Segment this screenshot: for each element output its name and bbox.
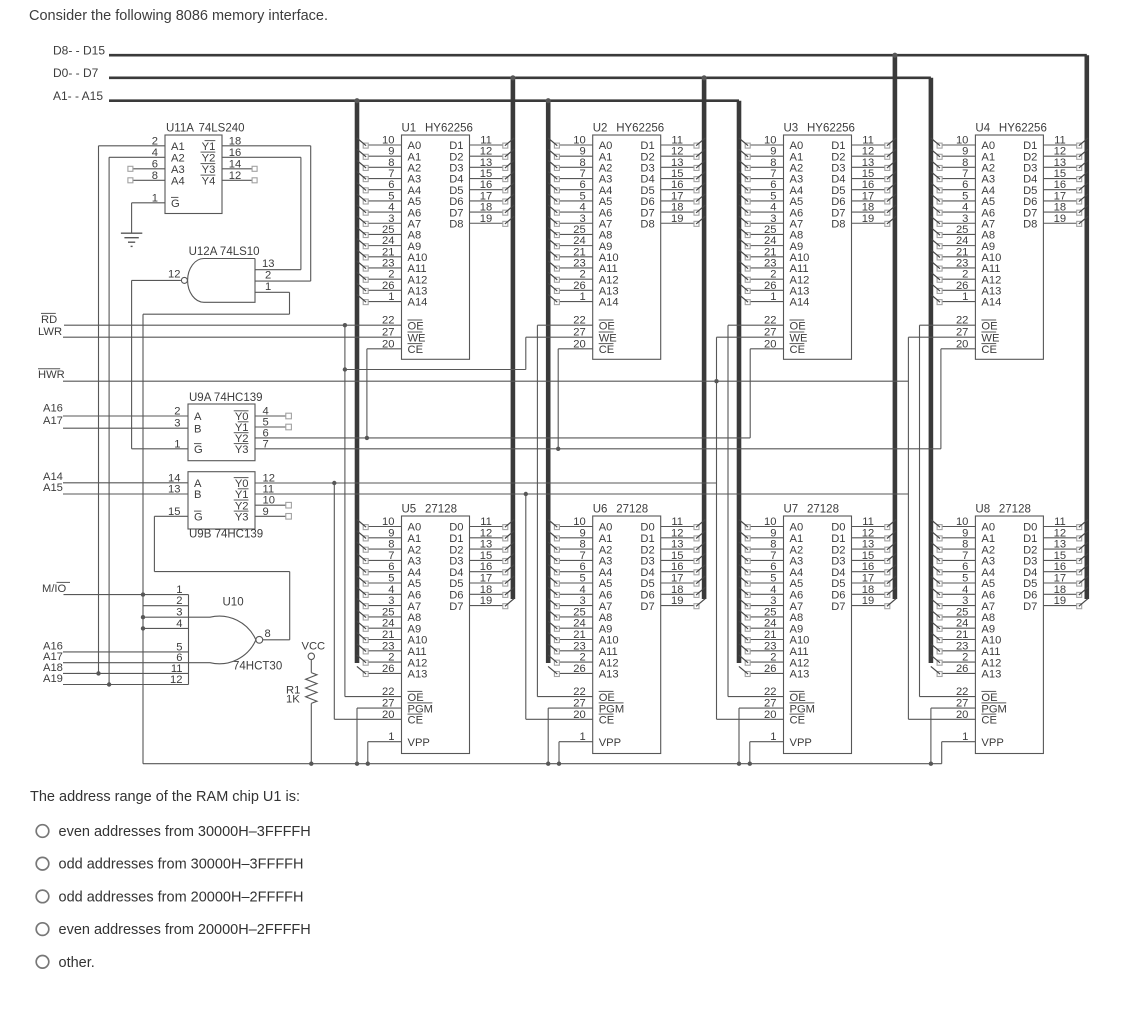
- svg-text:OE: OE: [599, 320, 615, 332]
- svg-text:A12: A12: [790, 657, 810, 669]
- svg-text:D2: D2: [1023, 544, 1037, 556]
- svg-text:D4: D4: [449, 567, 463, 579]
- svg-text:19: 19: [1054, 213, 1066, 225]
- svg-text:D8: D8: [1023, 218, 1037, 230]
- svg-text:17: 17: [1054, 573, 1066, 585]
- svg-text:13: 13: [480, 539, 492, 551]
- svg-text:12: 12: [671, 527, 683, 539]
- svg-text:16: 16: [671, 561, 683, 573]
- svg-text:Y1: Y1: [235, 489, 249, 501]
- svg-text:A1- - A15: A1- - A15: [53, 89, 103, 103]
- svg-text:24: 24: [956, 618, 968, 630]
- svg-text:D0: D0: [831, 522, 845, 534]
- svg-text:G: G: [194, 512, 203, 524]
- svg-text:A2: A2: [599, 544, 613, 556]
- svg-text:74LS240: 74LS240: [199, 123, 245, 135]
- svg-text:A10: A10: [408, 635, 428, 647]
- svg-text:U9B 74HC139: U9B 74HC139: [189, 529, 263, 541]
- svg-text:21: 21: [382, 629, 394, 641]
- svg-text:A12: A12: [599, 657, 619, 669]
- svg-text:10: 10: [956, 516, 968, 528]
- svg-text:D5: D5: [449, 578, 463, 590]
- svg-text:A4: A4: [790, 567, 804, 579]
- svg-text:A1: A1: [599, 533, 613, 545]
- svg-text:A5: A5: [599, 578, 613, 590]
- svg-text:CE: CE: [790, 344, 806, 356]
- svg-text:HY62256: HY62256: [807, 123, 855, 135]
- svg-text:5: 5: [770, 573, 776, 585]
- svg-text:A4: A4: [599, 567, 613, 579]
- svg-text:19: 19: [671, 213, 683, 225]
- svg-text:1K: 1K: [286, 694, 300, 706]
- svg-text:9: 9: [770, 527, 776, 539]
- svg-text:25: 25: [764, 606, 776, 618]
- svg-text:A7: A7: [790, 601, 804, 613]
- svg-text:VPP: VPP: [790, 737, 812, 749]
- svg-text:17: 17: [671, 573, 683, 585]
- svg-text:OE: OE: [790, 692, 806, 704]
- svg-text:OE: OE: [408, 692, 424, 704]
- svg-text:odd addresses from 30000H–3FFF: odd addresses from 30000H–3FFFFH: [59, 857, 304, 873]
- svg-text:8: 8: [388, 539, 394, 551]
- svg-text:7: 7: [263, 438, 269, 450]
- svg-text:A5: A5: [790, 578, 804, 590]
- svg-text:A4: A4: [981, 567, 995, 579]
- svg-text:15: 15: [480, 550, 492, 562]
- svg-text:B: B: [194, 489, 201, 501]
- svg-text:A0: A0: [599, 522, 613, 534]
- svg-text:8: 8: [579, 539, 585, 551]
- svg-text:6: 6: [579, 561, 585, 573]
- svg-text:A9: A9: [408, 623, 422, 635]
- svg-text:A3: A3: [171, 164, 185, 176]
- svg-text:CE: CE: [408, 344, 424, 356]
- svg-text:HY62256: HY62256: [616, 123, 664, 135]
- svg-text:D5: D5: [1023, 578, 1037, 590]
- svg-text:Y1: Y1: [202, 141, 216, 153]
- svg-text:U10: U10: [223, 597, 244, 609]
- svg-text:12: 12: [168, 268, 180, 280]
- svg-text:11: 11: [1054, 516, 1066, 528]
- svg-text:A0: A0: [790, 522, 804, 534]
- svg-text:5: 5: [962, 573, 968, 585]
- svg-text:A6: A6: [599, 590, 613, 602]
- svg-text:A2: A2: [981, 544, 995, 556]
- svg-text:24: 24: [573, 618, 585, 630]
- svg-text:PGM: PGM: [981, 703, 1006, 715]
- svg-text:A1: A1: [408, 533, 422, 545]
- svg-text:Y2: Y2: [202, 153, 216, 165]
- svg-text:6: 6: [962, 561, 968, 573]
- svg-text:D3: D3: [831, 556, 845, 568]
- svg-text:A14: A14: [599, 297, 619, 309]
- svg-text:A6: A6: [981, 590, 995, 602]
- svg-text:2: 2: [579, 652, 585, 664]
- svg-text:24: 24: [382, 618, 394, 630]
- svg-text:1: 1: [962, 291, 968, 303]
- svg-text:D1: D1: [831, 533, 845, 545]
- svg-text:19: 19: [862, 213, 874, 225]
- svg-text:D4: D4: [1023, 567, 1037, 579]
- svg-text:17: 17: [862, 573, 874, 585]
- svg-text:D6: D6: [831, 590, 845, 602]
- svg-text:D6: D6: [449, 590, 463, 602]
- svg-text:12: 12: [1054, 527, 1066, 539]
- svg-text:A0: A0: [981, 522, 995, 534]
- svg-text:RD: RD: [41, 314, 57, 326]
- svg-text:24: 24: [764, 618, 776, 630]
- svg-text:D1: D1: [449, 533, 463, 545]
- svg-text:23: 23: [573, 640, 585, 652]
- svg-text:12: 12: [862, 527, 874, 539]
- svg-text:13: 13: [262, 258, 274, 270]
- svg-text:A3: A3: [790, 556, 804, 568]
- svg-text:D3: D3: [640, 556, 654, 568]
- svg-text:26: 26: [573, 663, 585, 675]
- svg-text:19: 19: [862, 595, 874, 607]
- svg-text:4: 4: [962, 584, 968, 596]
- svg-text:A14: A14: [408, 297, 428, 309]
- svg-text:OE: OE: [981, 320, 997, 332]
- svg-text:A6: A6: [790, 590, 804, 602]
- svg-text:1: 1: [770, 291, 776, 303]
- svg-text:4: 4: [176, 618, 182, 630]
- svg-text:26: 26: [382, 663, 394, 675]
- svg-text:D8: D8: [831, 218, 845, 230]
- svg-text:D0: D0: [1023, 522, 1037, 534]
- svg-text:6: 6: [388, 561, 394, 573]
- svg-text:9: 9: [388, 527, 394, 539]
- svg-text:OE: OE: [599, 692, 615, 704]
- svg-text:D0: D0: [449, 522, 463, 534]
- svg-text:OE: OE: [981, 692, 997, 704]
- svg-text:CE: CE: [981, 715, 997, 727]
- svg-text:D6: D6: [1023, 590, 1037, 602]
- svg-text:10: 10: [764, 516, 776, 528]
- svg-text:PGM: PGM: [408, 703, 433, 715]
- svg-text:U2: U2: [593, 123, 608, 135]
- svg-text:PGM: PGM: [790, 703, 815, 715]
- svg-text:25: 25: [382, 606, 394, 618]
- svg-text:11: 11: [862, 516, 874, 528]
- svg-text:A13: A13: [790, 669, 810, 681]
- svg-text:D7: D7: [449, 601, 463, 613]
- svg-text:D2: D2: [640, 544, 654, 556]
- svg-text:A14: A14: [981, 297, 1001, 309]
- svg-text:16: 16: [480, 561, 492, 573]
- svg-text:A1: A1: [790, 533, 804, 545]
- svg-text:21: 21: [573, 629, 585, 641]
- svg-text:14: 14: [168, 472, 180, 484]
- svg-text:other.: other.: [59, 955, 95, 971]
- svg-text:D1: D1: [640, 533, 654, 545]
- svg-text:U6: U6: [593, 504, 608, 516]
- svg-text:7: 7: [770, 550, 776, 562]
- svg-text:21: 21: [764, 629, 776, 641]
- svg-text:12: 12: [170, 674, 182, 686]
- svg-text:1: 1: [579, 291, 585, 303]
- svg-text:74HCT30: 74HCT30: [233, 661, 282, 673]
- svg-text:A1: A1: [981, 533, 995, 545]
- svg-text:A14: A14: [43, 471, 63, 483]
- svg-text:11: 11: [263, 484, 275, 496]
- svg-text:HY62256: HY62256: [999, 123, 1047, 135]
- svg-text:even addresses from 30000H–3FF: even addresses from 30000H–3FFFFH: [59, 824, 311, 840]
- svg-text:11: 11: [671, 516, 683, 528]
- svg-text:WE: WE: [981, 332, 999, 344]
- svg-text:A0: A0: [408, 522, 422, 534]
- svg-text:A1: A1: [171, 141, 185, 153]
- svg-text:A12: A12: [981, 657, 1001, 669]
- svg-text:Y3: Y3: [202, 164, 216, 176]
- svg-text:7: 7: [579, 550, 585, 562]
- svg-text:A16: A16: [43, 403, 63, 415]
- svg-text:D8: D8: [640, 218, 654, 230]
- svg-text:17: 17: [480, 573, 492, 585]
- svg-text:PGM: PGM: [599, 703, 624, 715]
- svg-text:U8: U8: [975, 504, 990, 516]
- svg-text:18: 18: [1054, 584, 1066, 596]
- svg-text:D7: D7: [831, 601, 845, 613]
- svg-text:U4: U4: [975, 123, 990, 135]
- svg-text:3: 3: [174, 418, 180, 430]
- svg-text:27128: 27128: [807, 504, 839, 516]
- svg-text:U7: U7: [784, 504, 799, 516]
- svg-text:WE: WE: [599, 332, 617, 344]
- svg-text:A4: A4: [408, 567, 422, 579]
- svg-text:5: 5: [579, 573, 585, 585]
- svg-text:16: 16: [862, 561, 874, 573]
- svg-text:U5: U5: [402, 504, 417, 516]
- svg-text:D8- - D15: D8- - D15: [53, 43, 105, 57]
- svg-text:23: 23: [382, 640, 394, 652]
- svg-text:A19: A19: [43, 673, 63, 685]
- svg-text:A3: A3: [981, 556, 995, 568]
- svg-text:CE: CE: [790, 715, 806, 727]
- svg-text:VPP: VPP: [981, 737, 1003, 749]
- svg-text:3: 3: [388, 595, 394, 607]
- svg-text:A8: A8: [599, 612, 613, 624]
- svg-text:even addresses from 20000H–2FF: even addresses from 20000H–2FFFFH: [59, 922, 311, 938]
- svg-text:D7: D7: [1023, 601, 1037, 613]
- svg-text:A10: A10: [599, 635, 619, 647]
- svg-text:2: 2: [265, 270, 271, 282]
- svg-text:19: 19: [480, 213, 492, 225]
- svg-text:U9A 74HC139: U9A 74HC139: [189, 392, 263, 404]
- svg-text:1: 1: [388, 291, 394, 303]
- svg-text:D5: D5: [831, 578, 845, 590]
- svg-text:D5: D5: [640, 578, 654, 590]
- svg-text:A9: A9: [790, 623, 804, 635]
- svg-text:2: 2: [962, 652, 968, 664]
- svg-text:VPP: VPP: [408, 737, 430, 749]
- svg-text:D0: D0: [640, 522, 654, 534]
- svg-text:A10: A10: [790, 635, 810, 647]
- svg-text:G: G: [194, 444, 203, 456]
- svg-text:Y0: Y0: [235, 478, 249, 490]
- svg-text:3: 3: [176, 607, 182, 619]
- svg-text:HY62256: HY62256: [425, 123, 473, 135]
- svg-text:11: 11: [480, 516, 492, 528]
- svg-text:4: 4: [770, 584, 776, 596]
- svg-text:12: 12: [263, 472, 275, 484]
- svg-text:13: 13: [671, 539, 683, 551]
- svg-text:U11A: U11A: [166, 123, 194, 135]
- svg-text:U12A 74LS10: U12A 74LS10: [189, 246, 260, 258]
- svg-text:26: 26: [764, 663, 776, 675]
- svg-text:A11: A11: [599, 646, 618, 658]
- svg-text:A: A: [194, 478, 202, 490]
- svg-text:A17: A17: [43, 415, 63, 427]
- svg-text:26: 26: [956, 663, 968, 675]
- svg-text:19: 19: [1054, 595, 1066, 607]
- svg-text:A3: A3: [599, 556, 613, 568]
- svg-text:1: 1: [174, 438, 180, 450]
- svg-text:A: A: [194, 411, 202, 423]
- svg-text:10: 10: [573, 516, 585, 528]
- svg-text:1: 1: [265, 281, 271, 293]
- svg-text:D7: D7: [640, 601, 654, 613]
- svg-text:Y4: Y4: [202, 176, 216, 188]
- svg-text:A13: A13: [408, 669, 428, 681]
- svg-text:A7: A7: [981, 601, 995, 613]
- svg-text:WE: WE: [408, 332, 426, 344]
- svg-text:13: 13: [1054, 539, 1066, 551]
- svg-text:D6: D6: [640, 590, 654, 602]
- svg-text:A2: A2: [171, 153, 185, 165]
- svg-text:A11: A11: [981, 646, 1000, 658]
- svg-text:7: 7: [962, 550, 968, 562]
- svg-text:A8: A8: [790, 612, 804, 624]
- svg-text:A2: A2: [790, 544, 804, 556]
- svg-text:A14: A14: [790, 297, 810, 309]
- svg-text:A2: A2: [408, 544, 422, 556]
- svg-text:A12: A12: [408, 657, 428, 669]
- svg-text:19: 19: [671, 595, 683, 607]
- svg-text:16: 16: [1054, 561, 1066, 573]
- svg-text:A5: A5: [408, 578, 422, 590]
- svg-text:A8: A8: [981, 612, 995, 624]
- svg-text:19: 19: [480, 595, 492, 607]
- svg-text:CE: CE: [599, 715, 615, 727]
- svg-text:G: G: [171, 198, 180, 210]
- svg-text:5: 5: [388, 573, 394, 585]
- svg-text:18: 18: [862, 584, 874, 596]
- svg-text:4: 4: [579, 584, 585, 596]
- svg-text:18: 18: [671, 584, 683, 596]
- svg-text:CE: CE: [408, 715, 424, 727]
- svg-text:23: 23: [956, 640, 968, 652]
- svg-text:OE: OE: [408, 320, 424, 332]
- svg-text:D3: D3: [449, 556, 463, 568]
- svg-text:D8: D8: [449, 218, 463, 230]
- svg-text:WE: WE: [790, 332, 808, 344]
- svg-text:8: 8: [265, 628, 271, 640]
- svg-text:M/IO: M/IO: [42, 583, 67, 595]
- svg-text:A4: A4: [171, 176, 185, 188]
- svg-text:9: 9: [962, 527, 968, 539]
- svg-text:VPP: VPP: [599, 737, 621, 749]
- svg-text:D1: D1: [1023, 533, 1037, 545]
- svg-text:2: 2: [770, 652, 776, 664]
- svg-text:3: 3: [770, 595, 776, 607]
- svg-text:OE: OE: [790, 320, 806, 332]
- svg-text:D3: D3: [1023, 556, 1037, 568]
- svg-text:15: 15: [168, 506, 180, 518]
- svg-text:A3: A3: [408, 556, 422, 568]
- svg-text:3: 3: [962, 595, 968, 607]
- svg-text:A7: A7: [408, 601, 422, 613]
- svg-text:13: 13: [862, 539, 874, 551]
- svg-text:VCC: VCC: [302, 641, 326, 653]
- svg-text:27128: 27128: [999, 504, 1031, 516]
- svg-text:D0- - D7: D0- - D7: [53, 66, 99, 80]
- svg-text:10: 10: [382, 516, 394, 528]
- svg-text:27128: 27128: [425, 504, 457, 516]
- svg-text:2: 2: [174, 406, 180, 418]
- svg-text:LWR: LWR: [38, 326, 62, 338]
- svg-text:D2: D2: [831, 544, 845, 556]
- svg-text:HWR: HWR: [38, 369, 65, 381]
- svg-text:A11: A11: [408, 646, 427, 658]
- svg-text:Consider the following 8086 me: Consider the following 8086 memory inter…: [29, 8, 328, 24]
- svg-text:A5: A5: [981, 578, 995, 590]
- svg-text:A8: A8: [408, 612, 422, 624]
- svg-text:6: 6: [770, 561, 776, 573]
- svg-text:U1: U1: [402, 123, 417, 135]
- svg-text:7: 7: [388, 550, 394, 562]
- svg-text:CE: CE: [981, 344, 997, 356]
- svg-text:2: 2: [176, 595, 182, 607]
- svg-text:CE: CE: [599, 344, 615, 356]
- svg-text:4: 4: [388, 584, 394, 596]
- svg-text:15: 15: [862, 550, 874, 562]
- svg-text:25: 25: [573, 606, 585, 618]
- svg-text:A13: A13: [599, 669, 619, 681]
- svg-text:15: 15: [1054, 550, 1066, 562]
- svg-text:A10: A10: [981, 635, 1001, 647]
- svg-text:18: 18: [480, 584, 492, 596]
- svg-text:odd addresses from 20000H–2FFF: odd addresses from 20000H–2FFFFH: [59, 889, 304, 905]
- svg-text:B: B: [194, 423, 201, 435]
- svg-text:3: 3: [579, 595, 585, 607]
- svg-text:23: 23: [764, 640, 776, 652]
- svg-text:D4: D4: [831, 567, 845, 579]
- svg-text:15: 15: [671, 550, 683, 562]
- svg-text:A7: A7: [599, 601, 613, 613]
- svg-text:9: 9: [579, 527, 585, 539]
- svg-text:A15: A15: [43, 482, 63, 494]
- svg-text:A11: A11: [790, 646, 809, 658]
- svg-text:A6: A6: [408, 590, 422, 602]
- svg-text:D2: D2: [449, 544, 463, 556]
- svg-text:D4: D4: [640, 567, 654, 579]
- svg-text:A9: A9: [599, 623, 613, 635]
- svg-text:27128: 27128: [616, 504, 648, 516]
- svg-text:25: 25: [956, 606, 968, 618]
- svg-text:Y3: Y3: [235, 444, 249, 456]
- svg-text:A9: A9: [981, 623, 995, 635]
- svg-text:8: 8: [770, 539, 776, 551]
- svg-text:2: 2: [388, 652, 394, 664]
- svg-text:21: 21: [956, 629, 968, 641]
- svg-text:8: 8: [962, 539, 968, 551]
- svg-text:U3: U3: [784, 123, 799, 135]
- svg-text:12: 12: [480, 527, 492, 539]
- svg-text:13: 13: [168, 484, 180, 496]
- svg-text:The address range of the RAM c: The address range of the RAM chip U1 is:: [30, 789, 300, 805]
- svg-text:A13: A13: [981, 669, 1001, 681]
